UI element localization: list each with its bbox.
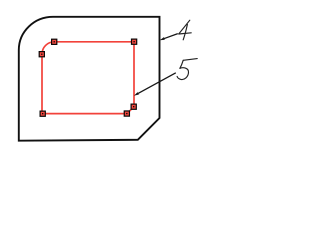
panel outline 4 — [19, 17, 160, 141]
handle arc-left — [39, 52, 44, 57]
label 4 — [179, 20, 192, 40]
handle arc-top — [52, 39, 57, 44]
handle bottom-left — [40, 111, 45, 116]
leader line 5 — [134, 73, 176, 96]
handle chamfer-top — [131, 104, 136, 109]
leader line 4 — [160, 34, 178, 41]
handle top-right — [132, 39, 137, 44]
handle chamfer-bottom — [124, 111, 129, 116]
label 5 — [177, 59, 197, 80]
electrode boundary 5 — [42, 42, 134, 114]
